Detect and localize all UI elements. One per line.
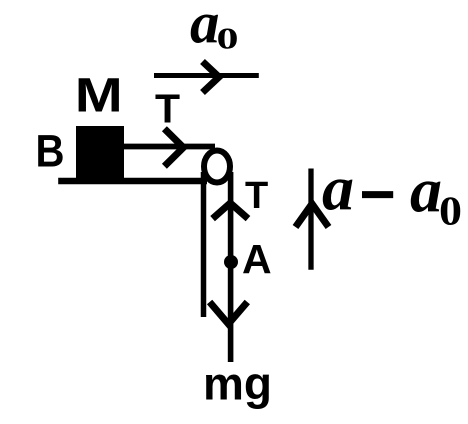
svg-text:0: 0 bbox=[439, 188, 462, 234]
svg-text:a: a bbox=[322, 153, 354, 224]
svg-text:M: M bbox=[75, 70, 123, 123]
svg-text:B: B bbox=[36, 126, 65, 177]
arrow mg down on vertical rope (pointing down) bbox=[210, 302, 248, 324]
svg-text:T: T bbox=[155, 86, 180, 132]
arrow a-a0 (vertical, pointing up) bbox=[296, 169, 329, 270]
pulley (circle at table edge) bbox=[204, 151, 230, 183]
arrow a0 (horizontal, pointing right) bbox=[154, 62, 259, 93]
node A (dot on rope) bbox=[224, 255, 238, 269]
svg-text:A: A bbox=[242, 236, 272, 282]
label a - a0 (relative acceleration) bbox=[322, 153, 462, 234]
svg-text:a: a bbox=[410, 155, 442, 226]
svg-text:T: T bbox=[245, 175, 268, 217]
svg-text:a: a bbox=[190, 0, 220, 56]
arrow T up on vertical rope (pointing up) bbox=[213, 203, 248, 219]
label a0 (acceleration of pulley frame) bbox=[190, 0, 239, 56]
svg-text:mg: mg bbox=[203, 358, 272, 410]
arrow T on horizontal rope (pointing right) bbox=[164, 129, 183, 167]
block M (filled square on table) bbox=[76, 126, 124, 182]
table surface line bbox=[58, 178, 207, 185]
wire: table edge vertical line (left) bbox=[201, 172, 207, 317]
wire: vertical rope from pulley down to hanging end bbox=[228, 172, 234, 362]
wire: horizontal rope from block to pulley bbox=[124, 144, 216, 150]
svg-text:0: 0 bbox=[217, 20, 239, 55]
